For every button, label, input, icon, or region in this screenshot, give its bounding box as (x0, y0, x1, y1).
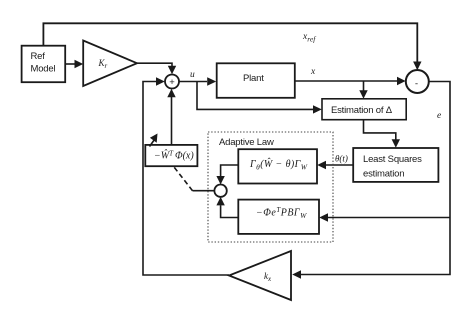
wire -Phi block output into junction circle J1 bottom (221, 205, 239, 217)
wire x_ref: Ref Model top, across the top, down into right summing junction (43, 23, 417, 68)
summing junction S2 (406, 70, 429, 93)
dashed container Adaptive Law (208, 132, 333, 242)
svg-text:Estimation of Δ: Estimation of Δ (331, 105, 393, 116)
svg-text:+: + (169, 77, 175, 88)
adjustable-parameter arrow through -W^T Phi(x) block (150, 140, 155, 147)
block Gamma_theta (W - theta) Gamma_W (238, 149, 317, 183)
wire theta(t): Least Squares output into Gamma block (326, 164, 353, 166)
wire into S2 left already drawn with x; S2 output wire e down the right side to kx (301, 82, 450, 275)
wire Estimation of Delta down to Least Squares estimation (364, 120, 396, 140)
wire u branch down and right into Estimation of Delta left (197, 82, 313, 110)
wire from -W^T Phi(x) block up into S1 bottom (171, 97, 173, 145)
svg-text:-: - (415, 78, 418, 88)
wire x branch down into Estimation of Delta top (363, 81, 365, 91)
svg-text:Ref: Ref (31, 51, 46, 62)
wire x: Plant output to right summing junction S2 (295, 80, 397, 82)
svg-text:x: x (310, 67, 316, 77)
svg-text:Γθ(Ŵ − θ)ΓW: Γθ(Ŵ − θ)ΓW (249, 157, 308, 172)
block -W^T Phi(x) (145, 145, 197, 166)
block -Phi e^T P B Gamma_W (238, 200, 319, 234)
wire Gamma block output into junction circle J1 top (221, 165, 239, 176)
summing junction S1 (165, 75, 179, 89)
svg-text:Least Squares: Least Squares (363, 154, 422, 165)
svg-text:Kr: Kr (98, 58, 108, 70)
svg-text:θ(t): θ(t) (335, 154, 348, 164)
junction circle J1 (214, 185, 226, 197)
wire e branch into -Phi e^T P B Gamma_W block right (328, 217, 450, 219)
wire Kr output to summing junction S1 top (137, 63, 172, 66)
svg-text:estimation: estimation (363, 169, 404, 180)
svg-text:Plant: Plant (243, 73, 264, 84)
block Plant (217, 63, 295, 98)
wire J1 output left (193, 190, 215, 192)
block Ref Model (22, 46, 66, 82)
gain Kr (triangle) (83, 41, 137, 87)
block Least Squares estimation (353, 148, 438, 182)
block Estimation of Delta (322, 99, 406, 120)
svg-text:kx: kx (264, 271, 272, 283)
svg-text:−ŴT Φ(x): −ŴT Φ(x) (154, 149, 194, 162)
svg-text:e: e (437, 111, 441, 121)
wire u: S1 output to Plant (179, 81, 207, 83)
svg-text:Model: Model (31, 64, 56, 75)
wire feedback from kx gain up into S1 left (143, 82, 229, 276)
svg-text:−ΦeTPBΓW: −ΦeTPBΓW (256, 206, 307, 220)
svg-text:xref: xref (302, 32, 316, 44)
gain kx (triangle pointing left) (229, 251, 291, 300)
svg-text:u: u (190, 70, 195, 80)
svg-text:Adaptive Law: Adaptive Law (219, 137, 274, 148)
wire Ref Model to Kr gain (65, 63, 74, 65)
dashed adaptation wire from J1 wire up-left to -W^T Phi(x) block (174, 167, 193, 191)
